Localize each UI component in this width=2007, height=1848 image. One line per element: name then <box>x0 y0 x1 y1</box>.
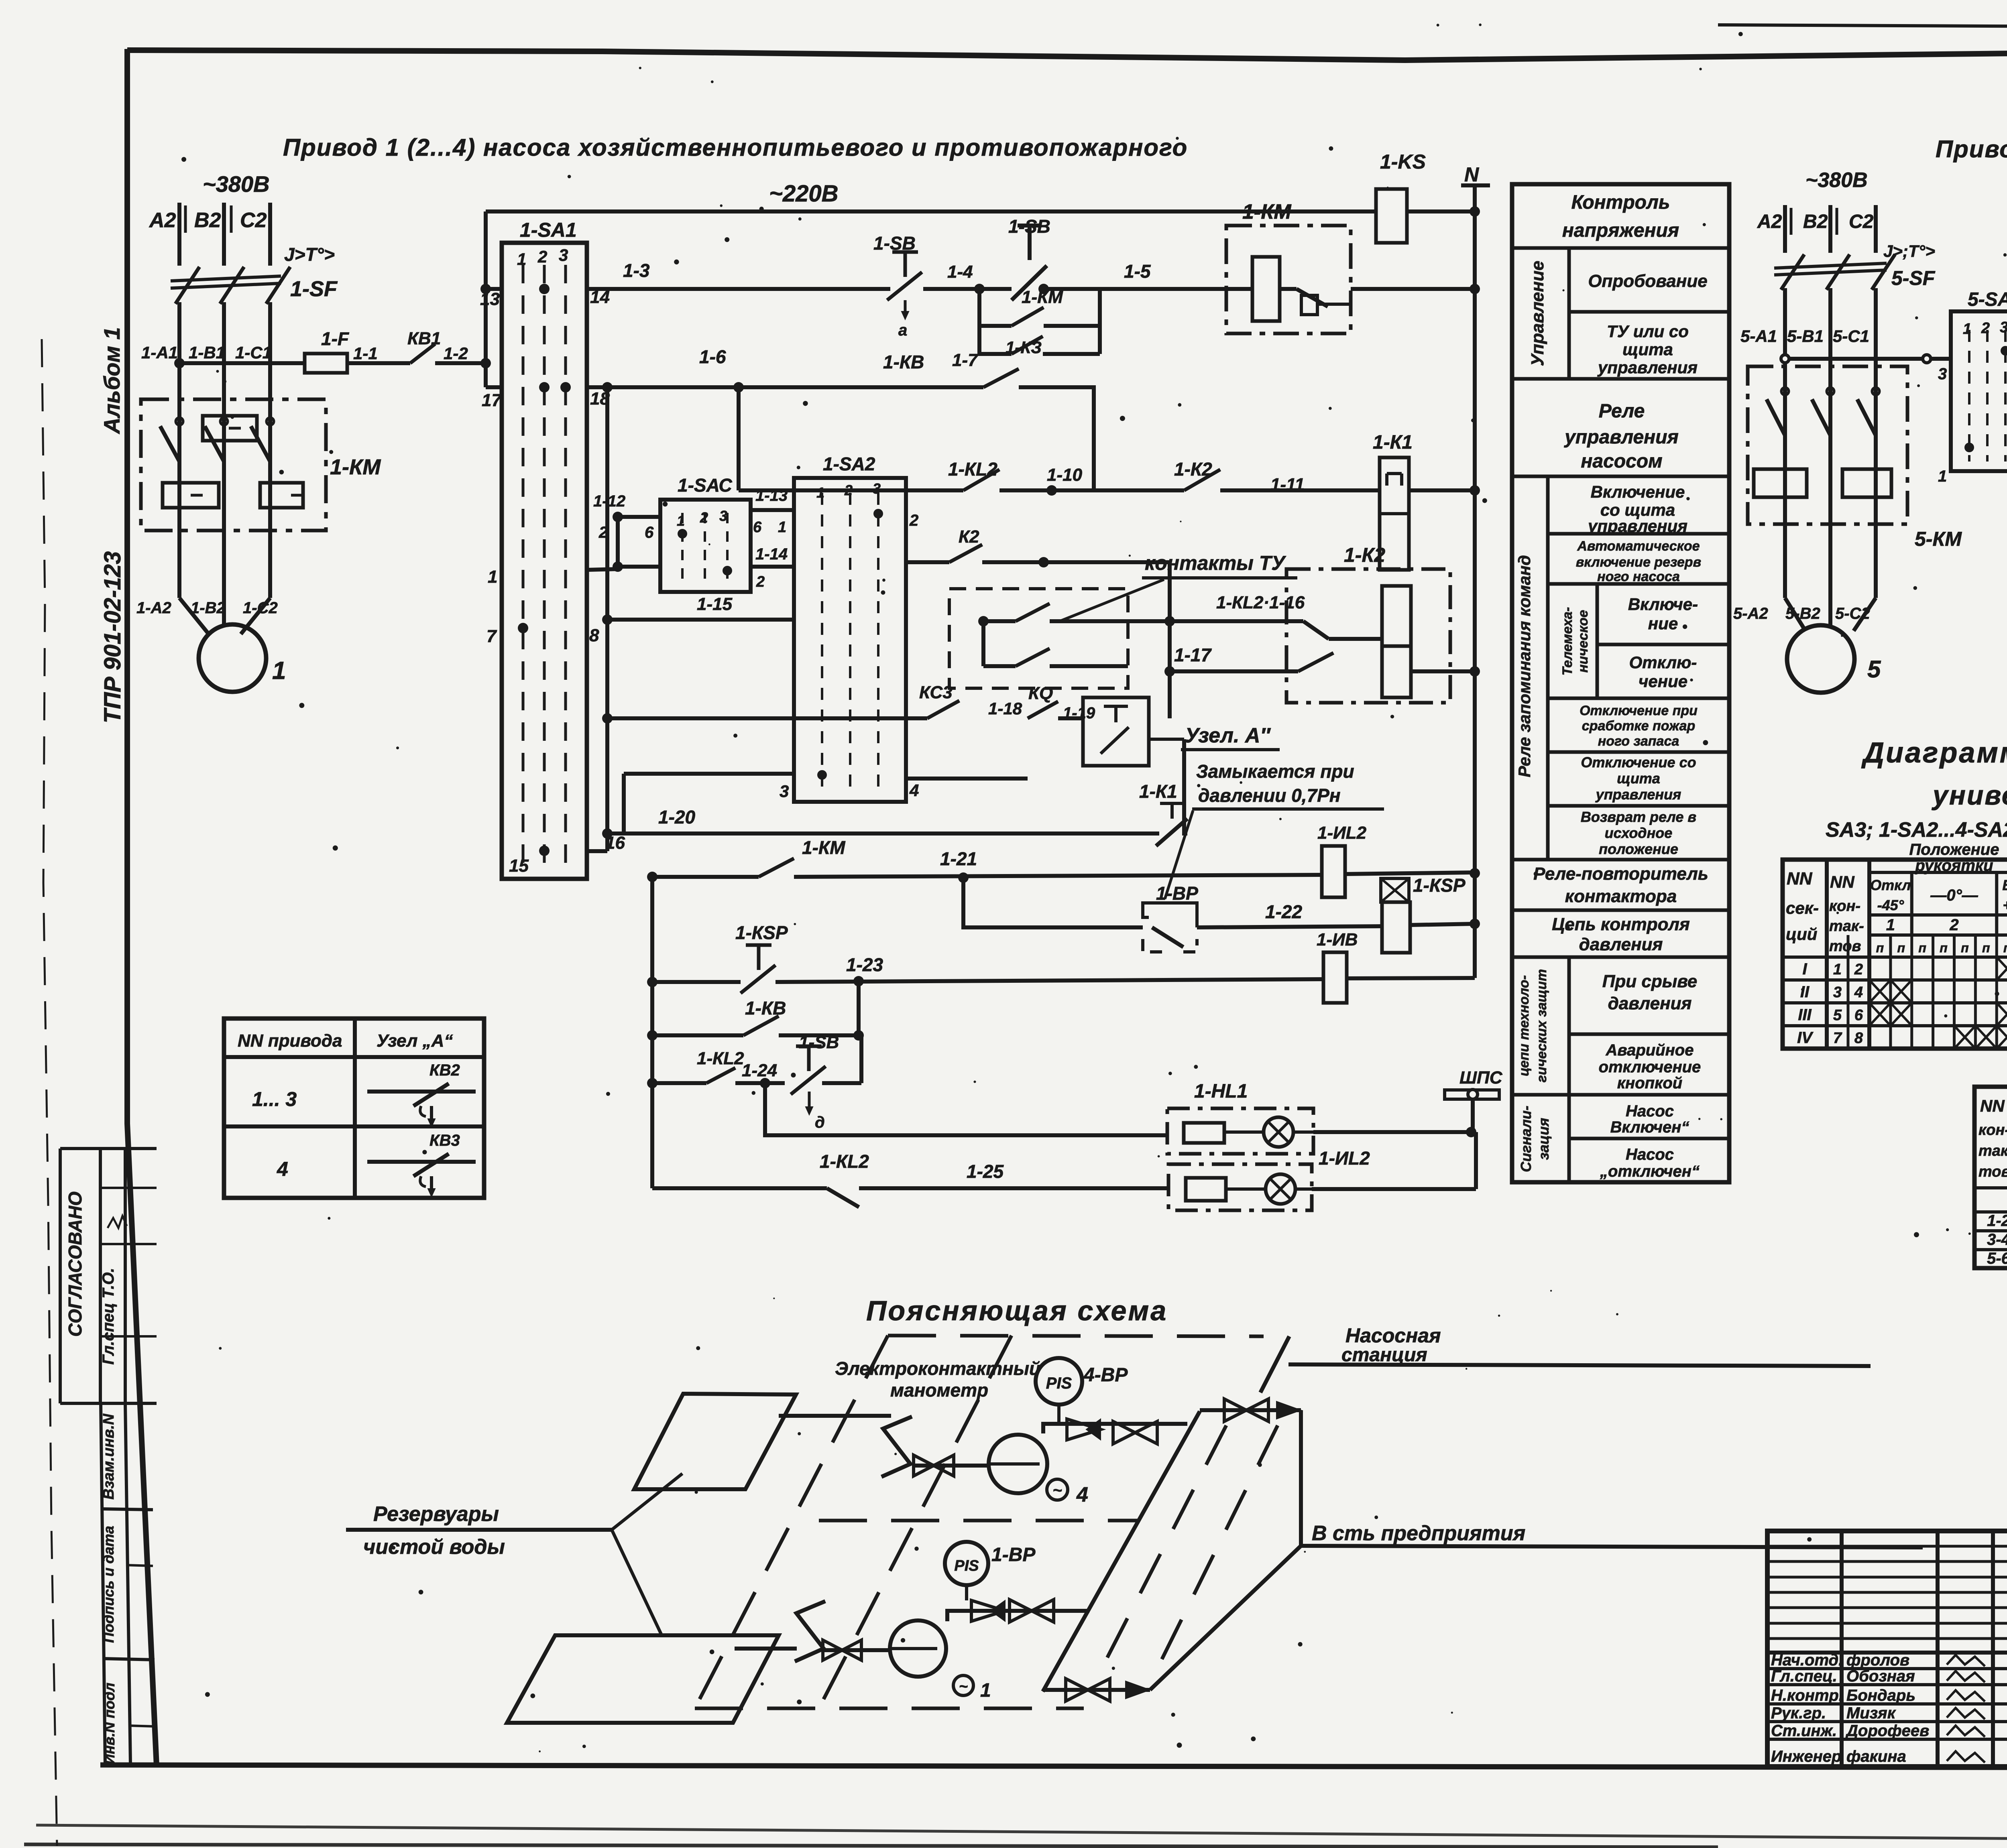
button 1-KSP row 1-23 <box>746 943 771 947</box>
leader kontakty TU <box>1060 579 1164 621</box>
svg-text:1-А1: 1-А1 <box>141 343 178 362</box>
reservoir lower parallelogram <box>507 1635 779 1723</box>
manifold top outlet <box>1200 1408 1301 1412</box>
svg-text:1-КL2: 1-КL2 <box>948 459 997 480</box>
svg-text:PIS: PIS <box>954 1557 979 1574</box>
function column rows <box>1512 246 1729 250</box>
contact 1-K1 NC <box>1160 802 1184 805</box>
svg-text:кон-: кон- <box>1829 898 1860 915</box>
svg-text:2: 2 <box>756 573 765 590</box>
svg-text:станция: станция <box>1341 1344 1427 1366</box>
svg-text:~380В: ~380В <box>203 171 270 197</box>
svg-text:1: 1 <box>488 567 497 587</box>
svg-text:Поясняющая схема: Поясняющая схема <box>866 1295 1168 1326</box>
svg-text:1: 1 <box>272 657 286 685</box>
contact 1-KV <box>983 369 1019 387</box>
svg-text:Альбом 1: Альбом 1 <box>99 327 124 435</box>
svg-text:1-ИL2: 1-ИL2 <box>1319 1148 1370 1169</box>
reservoir upper outlet <box>779 1414 891 1418</box>
svg-text:Обозная: Обозная <box>1846 1667 1915 1685</box>
fuse 1-F <box>305 354 347 373</box>
contact inside 1-K2 box <box>1298 653 1333 671</box>
svg-text:Гл.спец Т.О.: Гл.спец Т.О. <box>100 1268 117 1364</box>
resistor lamp2 <box>1186 1178 1226 1201</box>
svg-text:чение: чение <box>1639 672 1687 691</box>
svg-text:2: 2 <box>598 524 608 541</box>
svg-text:Откл: Откл <box>1870 877 1911 893</box>
riser from 1-6 to row 1-10 <box>737 387 741 490</box>
wire 1-23 <box>776 979 1323 982</box>
svg-text:гических защит: гических защит <box>1534 969 1549 1082</box>
svg-text:Цепь контроля: Цепь контроля <box>1552 915 1690 934</box>
svg-text:Сигнали-: Сигнали- <box>1518 1106 1534 1172</box>
svg-text:2: 2 <box>700 509 708 526</box>
wire to KQ box <box>1058 716 1083 720</box>
pump 4 aux circle <box>1047 1479 1068 1500</box>
svg-text:1-КSP: 1-КSP <box>735 922 788 943</box>
contactor coil box 1-KM <box>1226 226 1351 333</box>
svg-text:сек-: сек- <box>1786 899 1819 917</box>
svg-text:давлении 0,7Рн: давлении 0,7Рн <box>1198 785 1341 806</box>
box KQ <box>1083 697 1149 766</box>
coil rects 5-KM power <box>1754 469 1807 497</box>
pump 1 suction <box>823 1648 890 1652</box>
svg-text:1-4: 1-4 <box>947 262 973 282</box>
svg-text:SА3; 1-SА2...4-SА2: SА3; 1-SА2...4-SА2 <box>1826 818 2007 842</box>
lamp circle 2 <box>1266 1174 1295 1204</box>
svg-text:2: 2 <box>537 247 547 266</box>
pump 4 circle <box>989 1435 1047 1493</box>
svg-text:Автоматическое: Автоматическое <box>1577 539 1700 554</box>
svg-text:1-7: 1-7 <box>952 350 979 370</box>
stub to terminal 13 <box>486 287 502 291</box>
contact KV3 <box>367 1160 476 1164</box>
manifold inner dashed 2 <box>1156 1425 1278 1671</box>
soglasovano block <box>59 1149 62 1403</box>
wire after 1-KV <box>1019 387 1094 490</box>
leader to lower reservoir <box>612 1530 662 1637</box>
svg-text:1-К1: 1-К1 <box>1373 432 1413 453</box>
svg-text:ного насоса: ного насоса <box>1597 569 1680 584</box>
svg-text:п: п <box>1918 941 1926 955</box>
bypass contact 1-KZ <box>979 326 1012 354</box>
svg-text:1-КL2: 1-КL2 <box>820 1151 869 1172</box>
wire lamp1 to N <box>1313 1130 1471 1134</box>
row 1-24 contact 1-KL2 <box>652 1081 706 1085</box>
svg-text:ническое: ническое <box>1575 610 1591 673</box>
svg-text:1-5: 1-5 <box>1124 261 1151 282</box>
wire row 1-23 left <box>652 980 741 984</box>
svg-text:отключение: отключение <box>1599 1058 1701 1076</box>
svg-text:1: 1 <box>1833 961 1842 978</box>
svg-text:~220В: ~220В <box>769 181 839 207</box>
svg-text:1-SF: 1-SF <box>290 277 338 301</box>
title block signatures <box>1947 1655 1985 1666</box>
wire SA2 row4 right <box>906 777 1028 781</box>
svg-text:1: 1 <box>1886 916 1895 934</box>
svg-text:1-ВР: 1-ВР <box>1156 883 1198 904</box>
margin text SOGLASOVANO <box>65 1191 85 1337</box>
contactor box 1-KM power <box>141 399 326 531</box>
svg-text:Контроль: Контроль <box>1571 192 1670 213</box>
margin text Gl.spec T.O <box>100 1268 117 1364</box>
svg-text:СОГЛАСОВАНО: СОГЛАСОВАНО <box>65 1191 85 1337</box>
phase line C drive1 <box>268 203 272 266</box>
svg-text:Отключение при: Отключение при <box>1580 703 1698 718</box>
svg-text:1-ИL2: 1-ИL2 <box>1317 823 1367 843</box>
svg-text:1-В1: 1-В1 <box>189 343 225 362</box>
lamp2 inner wires <box>1226 1187 1266 1191</box>
svg-text:J>Т°>: J>Т°> <box>284 244 335 265</box>
svg-text:2: 2 <box>1981 320 1990 337</box>
svg-text:6: 6 <box>1854 1007 1863 1024</box>
svg-text:напряжения: напряжения <box>1562 220 1679 241</box>
svg-text:1-20: 1-20 <box>658 807 695 827</box>
row 1-25 <box>652 1186 827 1190</box>
svg-text:-45°: -45° <box>1877 897 1904 913</box>
svg-text:NN: NN <box>1787 869 1813 888</box>
svg-text:п: п <box>1897 941 1905 955</box>
svg-text:Насос: Насос <box>1626 1146 1674 1163</box>
svg-text:1-SВ: 1-SВ <box>799 1033 839 1052</box>
svg-text:Положение: Положение <box>1909 841 1999 858</box>
svg-text:управления: управления <box>1564 427 1679 448</box>
svg-text:Насосная: Насосная <box>1345 1324 1441 1347</box>
svg-text:1-F: 1-F <box>321 328 350 349</box>
TU contact lower <box>981 621 985 666</box>
svg-text:„отключен“: „отключен“ <box>1600 1163 1700 1180</box>
svg-text:КС3: КС3 <box>919 683 953 702</box>
relay 1-IV row 1-23 <box>1323 952 1347 1003</box>
circuit breaker 1-SF <box>175 267 199 304</box>
station boundary bottom dashed <box>695 1707 1084 1710</box>
svg-text:п: п <box>1961 941 1969 955</box>
svg-text:NN привода: NN привода <box>238 1031 342 1051</box>
vertical joining 1-23 <box>857 982 861 1035</box>
wire to 1-SB bottom <box>735 1081 785 1085</box>
svg-text:Отключение со: Отключение со <box>1581 754 1696 771</box>
svg-text:NN: NN <box>1980 1096 2005 1115</box>
svg-text:1-KS: 1-KS <box>1380 150 1426 173</box>
branch row to lamp 1 <box>765 1083 1167 1135</box>
svg-text:контактора: контактора <box>1565 886 1677 906</box>
function column outer <box>1512 184 1729 1182</box>
svg-text:п: п <box>1982 941 1990 955</box>
strainer Z pump4 <box>881 1417 912 1477</box>
phase line B drive1 <box>222 203 226 266</box>
svg-text:~: ~ <box>1052 1482 1062 1499</box>
svg-text:Резервуары: Резервуары <box>373 1502 499 1526</box>
svg-text:Замыкается при: Замыкается при <box>1196 761 1354 782</box>
N bus vertical <box>1473 185 1477 978</box>
svg-text:1-КВ: 1-КВ <box>745 998 786 1019</box>
svg-text:А2: А2 <box>149 209 176 232</box>
svg-text:Диаграммы замыканий конта: Диаграммы замыканий контактов <box>1861 737 2007 769</box>
svg-text:3-4: 3-4 <box>1987 1231 2007 1248</box>
svg-text:Телемеха-: Телемеха- <box>1560 607 1575 676</box>
phase line A drive1 <box>177 203 181 266</box>
svg-text:C2: C2 <box>240 209 267 232</box>
svg-text:Включен“: Включен“ <box>1610 1118 1689 1136</box>
relay box 1-K2 <box>1286 569 1450 703</box>
reservoir lower outlet <box>735 1647 797 1651</box>
paper edge left wavy <box>42 339 57 1846</box>
svg-text:положение: положение <box>1599 841 1678 857</box>
svg-text:1-24: 1-24 <box>742 1061 777 1080</box>
ShPS symbol <box>1445 1090 1499 1099</box>
button 1-SB NC <box>892 250 918 254</box>
svg-text:насосом: насосом <box>1581 451 1662 472</box>
svg-text:Нач.отд.: Нач.отд. <box>1771 1651 1843 1669</box>
svg-text:3: 3 <box>2000 319 2007 336</box>
svg-text:1-2: 1-2 <box>1987 1212 2007 1230</box>
economy contact 1-KM <box>1280 287 1297 291</box>
svg-text:6: 6 <box>753 519 762 536</box>
svg-text:КQ: КQ <box>1028 683 1053 703</box>
svg-text:3: 3 <box>1833 984 1842 1001</box>
svg-text:Аварийное: Аварийное <box>1606 1041 1694 1059</box>
svg-text:1: 1 <box>816 484 824 501</box>
svg-text:1-SА1: 1-SА1 <box>520 219 577 241</box>
svg-text:В2: В2 <box>1803 211 1828 232</box>
svg-text:1: 1 <box>677 512 685 529</box>
svg-text:ций: ций <box>1786 925 1817 943</box>
margin text Album 1 <box>99 327 124 435</box>
svg-text:Узел. А″: Узел. А″ <box>1185 724 1271 747</box>
svg-text:1-22: 1-22 <box>1265 901 1302 922</box>
svg-text:1-SАС: 1-SАС <box>678 475 733 496</box>
wire 1-21 <box>794 875 1322 877</box>
svg-text:ШПС: ШПС <box>1459 1068 1503 1088</box>
svg-text:Привод 5 дренажного насоса: Привод 5 дренажного насоса <box>1936 136 2007 163</box>
manifold right lower diagonal <box>1150 1546 1301 1690</box>
svg-text:~380В: ~380В <box>1805 169 1868 192</box>
margin signature <box>108 1216 127 1228</box>
bypass contact 1-KM <box>979 289 1012 326</box>
svg-text:3: 3 <box>719 508 727 524</box>
svg-text:д: д <box>815 1114 825 1131</box>
svg-text:ТПР 901-02-123: ТПР 901-02-123 <box>100 551 126 724</box>
svg-text:управления: управления <box>1595 786 1681 803</box>
svg-text:5-С1: 5-С1 <box>1833 327 1869 346</box>
svg-text:3: 3 <box>559 246 568 264</box>
margin text Podpis i data <box>100 1526 117 1643</box>
svg-text:контакты ТУ: контакты ТУ <box>1145 552 1286 574</box>
svg-text:Ст.инж.: Ст.инж. <box>1771 1722 1837 1740</box>
wire KSP to N <box>1410 924 1475 925</box>
svg-text:III: III <box>1798 1006 1812 1024</box>
wire 1-5 <box>1047 287 1252 291</box>
svg-text:ние: ние <box>1648 614 1678 633</box>
riser R3 <box>650 877 654 1188</box>
strainer Z pump1 <box>795 1601 825 1661</box>
button 1-SB NO <box>1018 224 1042 228</box>
coil rects 1-KM power <box>203 416 257 441</box>
contact 1-KL2-1-16 <box>1170 619 1303 623</box>
wire SA2 row3 left <box>624 772 794 776</box>
svg-text:II: II <box>1800 983 1810 1001</box>
wire row 1-21 left <box>652 875 759 879</box>
svg-text:5-SF: 5-SF <box>1891 267 1936 289</box>
wire relay 1-K2 to N <box>1411 669 1475 673</box>
svg-text:3: 3 <box>1938 365 1947 383</box>
svg-text:~: ~ <box>959 1678 968 1695</box>
svg-text:Возврат реле в: Возврат реле в <box>1581 809 1696 825</box>
svg-text:1: 1 <box>1938 468 1947 485</box>
leader to upper reservoir <box>612 1474 682 1530</box>
svg-text:2: 2 <box>1949 916 1958 934</box>
margin text Vzam inv N <box>100 1413 117 1500</box>
node 1-A1 <box>174 358 185 368</box>
wire row 1-10 <box>739 488 963 492</box>
instrument PIS 4-BP <box>1036 1358 1082 1405</box>
svg-text:N: N <box>1464 163 1479 186</box>
wire K2 row to riser <box>982 560 1170 564</box>
svg-text:Подпись и дата: Подпись и дата <box>100 1526 117 1643</box>
wire 1-14 <box>751 565 794 569</box>
riser R1 <box>605 387 609 851</box>
svg-text:1-КL2: 1-КL2 <box>697 1049 744 1068</box>
svg-text:4: 4 <box>1076 1483 1088 1506</box>
svg-text:управления: управления <box>1587 516 1687 535</box>
manifold inner dashed 1 <box>1103 1425 1226 1665</box>
wire 1-25 <box>859 1186 1168 1190</box>
svg-text:кнопкой: кнопкой <box>1617 1074 1682 1092</box>
svg-text:+45°: +45° <box>2003 897 2007 913</box>
svg-text:5-А2: 5-А2 <box>1733 605 1768 622</box>
svg-text:5-SА: 5-SА <box>1968 289 2007 310</box>
pump 4 suction <box>914 1464 989 1468</box>
svg-text:1-3: 1-3 <box>623 260 650 281</box>
frame top border <box>127 47 2007 60</box>
svg-text:—0°—: —0°— <box>1930 886 1978 904</box>
contactor box 5-KM power <box>1748 366 1907 524</box>
station boundary corner <box>1260 1336 1289 1393</box>
svg-text:5-А1: 5-А1 <box>1740 327 1777 346</box>
svg-text:13: 13 <box>480 289 500 309</box>
svg-text:NN: NN <box>1830 872 1855 891</box>
svg-text:Рук.гр.: Рук.гр. <box>1771 1704 1826 1722</box>
svg-text:Реле: Реле <box>1599 401 1645 422</box>
svg-text:так-: так- <box>1979 1143 2007 1159</box>
svg-text:1-10: 1-10 <box>1047 465 1083 485</box>
svg-text:Реле-повторитель: Реле-повторитель <box>1533 864 1708 884</box>
lamp1 inner wires <box>1224 1130 1264 1134</box>
wire lamp2 up to node <box>1312 1187 1476 1191</box>
coil 1-KM <box>1252 257 1280 321</box>
svg-text:1-В2: 1-В2 <box>191 599 226 617</box>
control bus drive5 <box>1785 357 1951 361</box>
svg-text:тов: тов <box>1829 938 1861 955</box>
svg-text:1-НL1: 1-НL1 <box>1194 1081 1248 1102</box>
top bus 220V <box>486 209 1376 213</box>
wire 1-3 <box>587 287 890 291</box>
breaker 5-SF <box>1781 254 1804 290</box>
svg-text:так-: так- <box>1829 918 1864 935</box>
relay 1-KSP <box>1381 878 1409 902</box>
svg-text:сработке пожар: сработке пожар <box>1582 718 1695 734</box>
svg-text:IV: IV <box>1797 1029 1814 1047</box>
manifold bottom outlet <box>1043 1688 1150 1692</box>
wire coil to N <box>1351 287 1475 291</box>
svg-text:Н.контр.: Н.контр. <box>1771 1687 1843 1704</box>
svg-text:1-SB: 1-SB <box>1008 216 1050 237</box>
station boundary top dashed <box>888 1336 1264 1336</box>
svg-text:1-SВ: 1-SВ <box>873 233 916 254</box>
fc section upravlenie <box>1567 248 1571 379</box>
contact KQ <box>1028 701 1058 718</box>
arrow a under button <box>904 300 907 316</box>
svg-text:Опробование: Опробование <box>1588 271 1707 291</box>
fc telemekhanicheskoe <box>1596 584 1599 698</box>
wire fuse to KV1 <box>347 361 410 365</box>
svg-text:п: п <box>1876 941 1884 955</box>
svg-text:1-17: 1-17 <box>1174 644 1212 665</box>
feeder vertical to 1-SA1 <box>484 211 488 387</box>
wire 1-17 <box>1170 669 1298 673</box>
motor 1 circle <box>199 624 266 692</box>
paper edge bottom lowest <box>24 1844 1718 1847</box>
relay 1-KS <box>1376 189 1407 243</box>
svg-text:4: 4 <box>1854 984 1863 1001</box>
svg-text:Управление: Управление <box>1528 261 1547 366</box>
svg-text:Мизяк: Мизяк <box>1846 1704 1896 1722</box>
svg-text:ТУ или со: ТУ или со <box>1607 322 1689 341</box>
manifold right vertical <box>1299 1410 1303 1546</box>
contact 1-KM row 1-21 <box>759 858 794 877</box>
svg-text:3: 3 <box>873 480 881 497</box>
wire bus to fuse <box>179 361 305 365</box>
svg-text:В сть предприятия: В сть предприятия <box>1312 1522 1525 1545</box>
svg-text:п: п <box>2003 941 2007 955</box>
svg-text:Насос: Насос <box>1626 1102 1674 1120</box>
resistor lamp1 <box>1184 1123 1224 1143</box>
svg-text:1-13: 1-13 <box>755 487 788 504</box>
fc section signalizatsiya <box>1567 1095 1571 1182</box>
wire after SB <box>822 1081 861 1085</box>
svg-text:5-В1: 5-В1 <box>1787 327 1824 346</box>
svg-text:4-ВР: 4-ВР <box>1083 1364 1128 1386</box>
svg-text:1: 1 <box>980 1680 991 1701</box>
svg-text:Инженер: Инженер <box>1771 1748 1841 1765</box>
svg-text:1-1: 1-1 <box>353 344 378 363</box>
wire KV1 to feeder <box>435 361 486 365</box>
svg-text:Узел „А“: Узел „А“ <box>377 1031 453 1051</box>
svg-text:1-21: 1-21 <box>940 848 977 869</box>
svg-text:4: 4 <box>909 781 919 800</box>
title block verticals left part <box>1840 1531 1844 1767</box>
svg-text:Гл.спец.: Гл.спец. <box>1771 1667 1837 1685</box>
margin text TPR 901-02-123 <box>100 551 126 724</box>
relay 1-K1 <box>1380 457 1409 570</box>
wire 1-22 <box>1197 926 1381 927</box>
svg-text:I: I <box>1802 960 1807 978</box>
paper edge bottom <box>36 1825 2007 1840</box>
svg-text:Дорофеев: Дорофеев <box>1845 1722 1929 1740</box>
svg-text:5-КМ: 5-КМ <box>1915 528 1962 550</box>
contact 1-KL2 row 1-10 <box>963 470 999 490</box>
N bus tick <box>1461 183 1490 187</box>
svg-text:ного запаса: ного запаса <box>1598 734 1679 749</box>
wire KQ box to riser <box>1149 738 1184 741</box>
button 1-SB row 1-24 <box>796 1045 822 1048</box>
svg-text:фролов: фролов <box>1846 1651 1909 1669</box>
svg-text:1-14: 1-14 <box>755 545 788 563</box>
motor 5 circle <box>1787 625 1854 693</box>
pump 4 discharge <box>1043 1424 1187 1433</box>
switch block 5-SA <box>1951 311 2007 471</box>
svg-text:1: 1 <box>1963 321 1971 337</box>
